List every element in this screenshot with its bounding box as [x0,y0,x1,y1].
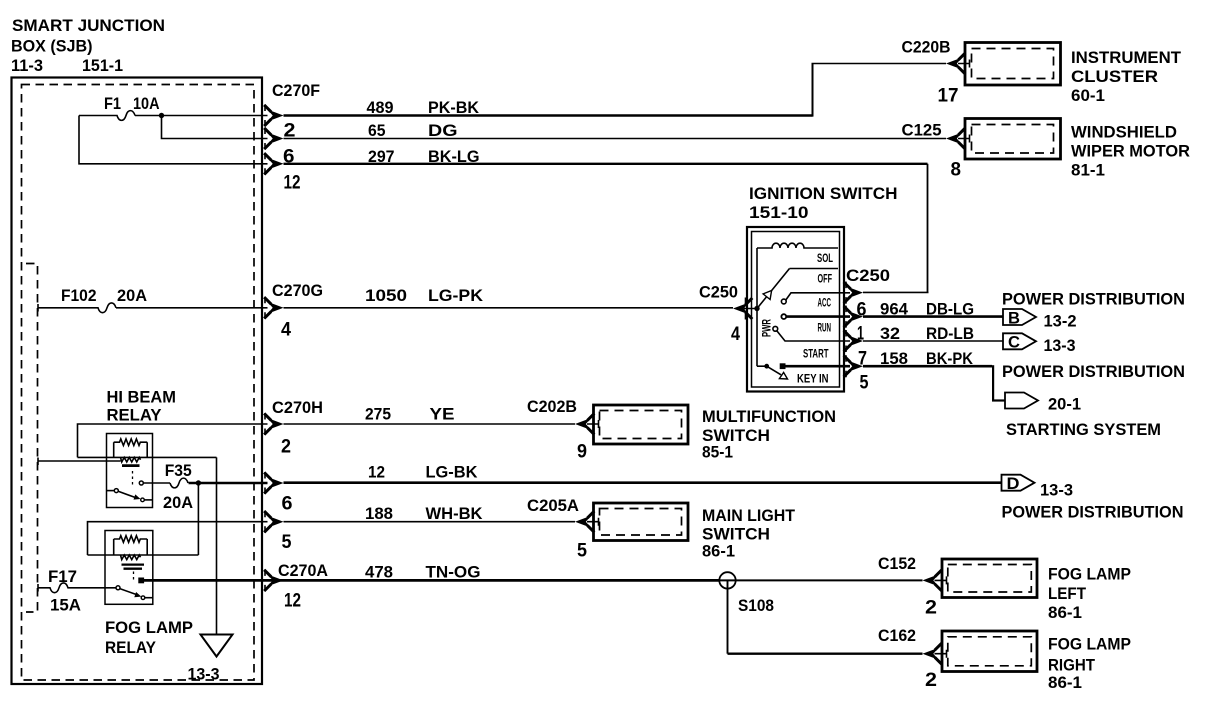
svg-text:RELAY: RELAY [107,406,163,425]
svg-text:C220B: C220B [902,38,951,57]
svg-text:S108: S108 [738,596,774,615]
svg-text:LEFT: LEFT [1048,584,1087,603]
fog relay coil rail [88,554,199,556]
SJB dashed boundary [22,85,255,681]
fog lamp left connector box [942,559,1037,598]
terminal C power distribution 13-3 [1003,333,1076,356]
svg-text:2: 2 [925,670,937,691]
svg-text:5: 5 [282,532,292,553]
svg-text:WH-BK: WH-BK [426,504,484,523]
svg-text:13-3: 13-3 [1040,481,1073,500]
wire F35 junction to pin 6 [189,482,268,484]
svg-text:MAIN LIGHT: MAIN LIGHT [702,506,796,525]
svg-text:FOG LAMP: FOG LAMP [105,618,193,637]
wire 188 WH-BK [284,504,576,523]
svg-text:32: 32 [880,324,900,343]
splice S108 [719,572,774,654]
svg-text:20A: 20A [117,286,147,305]
svg-text:HI BEAM: HI BEAM [107,388,177,407]
svg-text:1: 1 [857,324,864,345]
svg-text:C250: C250 [699,283,738,302]
svg-text:86-1: 86-1 [1048,603,1082,622]
svg-text:RD-LB: RD-LB [926,324,974,343]
svg-text:297: 297 [368,147,395,166]
terminal starting system 20-1 [1005,393,1081,414]
connector C270H [264,398,323,458]
wire 32 RD-LB [857,324,1003,345]
ignition switch rotor [754,248,789,366]
svg-text:11-3: 11-3 [11,56,43,75]
svg-text:81-1: 81-1 [1071,161,1105,180]
svg-text:BOX (SJB): BOX (SJB) [11,37,93,56]
connector pin 5 C270 [264,511,292,553]
wire bus to hi beam coil second winding [38,458,121,466]
wire F102 to C270G [116,307,268,309]
svg-text:10A: 10A [133,94,160,113]
svg-text:SMART JUNCTION: SMART JUNCTION [12,16,165,35]
svg-text:F35: F35 [165,461,192,480]
wire C270H to hi beam coil [78,424,268,457]
svg-text:B: B [1008,309,1020,328]
wire 275 YE [284,405,576,425]
wire 12 LG-BK [284,463,1002,483]
svg-text:INSTRUMENT: INSTRUMENT [1071,48,1182,67]
connector C125 [902,121,970,181]
multifunction switch label [702,407,836,462]
svg-text:964: 964 [880,300,909,319]
svg-text:BK-PK: BK-PK [926,349,974,368]
svg-text:188: 188 [365,504,393,523]
connector C250 right side [844,266,890,394]
ACC contact [781,293,850,310]
connector C152 [878,554,947,619]
svg-text:C270G: C270G [272,281,323,300]
wire F35 junction to fog relay coil [197,483,199,555]
svg-text:20A: 20A [163,493,193,512]
svg-text:WIPER MOTOR: WIPER MOTOR [1071,142,1190,161]
junction F35 output [196,480,201,485]
svg-text:275: 275 [365,405,391,424]
svg-text:15A: 15A [50,596,81,615]
svg-text:C152: C152 [878,554,916,573]
wire 297 BK-LG [284,147,929,292]
smart junction box outline [12,78,263,685]
svg-text:C250: C250 [846,266,890,285]
svg-text:478: 478 [365,563,393,582]
fog lamp right connector box [942,631,1037,672]
svg-text:12: 12 [284,173,301,194]
svg-text:7: 7 [858,349,867,370]
svg-text:WINDSHIELD: WINDSHIELD [1071,123,1177,142]
svg-text:LG-PK: LG-PK [428,286,484,305]
connector C270G [264,281,323,341]
svg-text:TN-OG: TN-OG [426,563,481,582]
wire 65 DG [284,121,947,140]
ignition switch solenoid coil SOL [757,243,838,265]
svg-text:85-1: 85-1 [702,443,733,462]
svg-text:C270A: C270A [278,561,328,580]
svg-text:C162: C162 [878,626,916,645]
connector C162 [878,626,947,691]
ground drop wire [216,457,218,634]
windshield wiper motor label [1071,123,1190,180]
hi beam relay box [107,434,153,508]
fuse F35 [163,461,193,512]
svg-text:RELAY: RELAY [105,638,157,657]
fog lamp left label [1048,565,1131,623]
fog lamp relay contact [116,572,153,600]
svg-text:86-1: 86-1 [702,542,735,561]
svg-text:13-3: 13-3 [188,665,220,684]
connector C205A [527,496,599,562]
svg-text:9: 9 [577,442,587,463]
svg-text:13-3: 13-3 [1044,336,1076,355]
fog lamp right label [1048,635,1131,693]
svg-text:RUN: RUN [818,321,832,335]
wire junction down to 65 DG row [162,116,268,139]
svg-text:C: C [1008,333,1020,352]
svg-text:151-10: 151-10 [749,203,809,222]
connector C270A [264,561,328,612]
svg-text:D: D [1007,474,1020,493]
svg-text:YE: YE [430,405,455,424]
wire F1 to C270F pin (489 branch) [135,115,268,117]
svg-text:86-1: 86-1 [1048,673,1082,692]
hi beam relay label [107,388,177,425]
KEY IN switch [757,363,850,385]
junction node F1 output [159,113,164,118]
svg-text:STARTING SYSTEM: STARTING SYSTEM [1006,420,1161,439]
svg-text:DG: DG [428,121,458,140]
wire S108 to C162 [728,653,923,655]
ignition switch case [747,227,844,392]
svg-text:C125: C125 [902,121,942,140]
terminal B power distribution 13-2 [1003,309,1077,331]
svg-text:489: 489 [367,98,394,117]
svg-text:60-1: 60-1 [1071,86,1105,105]
svg-text:CLUSTER: CLUSTER [1071,67,1158,86]
svg-text:5: 5 [577,541,587,562]
windshield wiper motor connector box [965,119,1061,160]
svg-text:POWER DISTRIBUTION: POWER DISTRIBUTION [1002,503,1184,522]
svg-text:PWR: PWR [760,319,774,337]
connector C250 left pin 4 [699,283,757,346]
svg-text:65: 65 [368,121,386,140]
svg-text:6: 6 [282,494,293,515]
svg-text:17: 17 [938,86,959,107]
svg-text:F102: F102 [61,286,97,305]
svg-text:2: 2 [281,437,291,458]
connector C220B [902,38,970,107]
terminal D power distribution 13-3 [1002,474,1074,499]
svg-text:MULTIFUNCTION: MULTIFUNCTION [702,407,836,426]
svg-text:POWER DISTRIBUTION: POWER DISTRIBUTION [1002,362,1185,381]
wire 1050 LG-PK [284,286,734,308]
svg-text:START: START [803,347,829,361]
hi beam coil rail [78,456,217,458]
svg-text:8: 8 [951,160,962,181]
svg-text:13-2: 13-2 [1044,312,1077,331]
hi beam relay contact [107,471,153,502]
connector C202B [527,397,599,463]
main light switch label [702,506,796,561]
svg-text:4: 4 [731,324,740,345]
instrument cluster connector box [965,43,1061,86]
svg-text:5: 5 [860,373,869,394]
svg-text:ACC: ACC [818,296,832,310]
svg-text:C205A: C205A [527,496,579,515]
svg-text:FOG LAMP: FOG LAMP [1048,635,1131,654]
svg-text:F1: F1 [104,94,121,113]
ignition switch label [749,184,898,222]
svg-text:C202B: C202B [527,397,577,416]
svg-text:158: 158 [880,349,908,368]
RUN contact [781,314,850,334]
svg-text:C270H: C270H [272,398,323,417]
fog lamp relay coil [114,536,148,569]
svg-text:DB-LG: DB-LG [926,300,974,319]
wire 964 DB-LG [857,300,1004,321]
fuse F102 [38,286,147,313]
START contact [773,326,850,360]
svg-text:PK-BK: PK-BK [428,98,480,117]
svg-text:FOG LAMP: FOG LAMP [1048,565,1131,584]
svg-text:LG-BK: LG-BK [426,463,479,482]
svg-text:12: 12 [368,463,385,482]
wire 158 BK-PK [858,349,1005,401]
svg-text:4: 4 [281,320,291,341]
fog lamp relay box [105,531,153,605]
hi beam relay coil [114,439,148,466]
svg-text:RIGHT: RIGHT [1048,656,1096,675]
svg-text:2: 2 [925,598,937,619]
fuse F1 [79,94,160,120]
svg-text:SOL: SOL [817,251,833,265]
wire 489 PK-BK [284,64,947,118]
svg-text:C270F: C270F [272,81,320,100]
fog lamp relay label [105,618,193,657]
OFF contact [790,269,839,286]
main light switch connector box [594,503,689,541]
ground 13-3 [188,635,233,684]
svg-text:OFF: OFF [818,272,833,286]
svg-text:1050: 1050 [365,286,407,305]
svg-text:20-1: 20-1 [1048,395,1081,414]
svg-text:6: 6 [857,300,867,321]
wire contact to fuse F35 [143,482,170,484]
svg-text:IGNITION SWITCH: IGNITION SWITCH [749,184,898,203]
svg-text:BK-LG: BK-LG [428,147,480,166]
SJB internal bus dashed line [26,264,38,613]
instrument cluster label [1071,48,1182,105]
wire corner down to 297 BK-LG row [79,116,268,164]
svg-text:KEY IN: KEY IN [797,372,829,386]
svg-text:151-1: 151-1 [82,56,123,75]
wire 478 TN-OG [144,563,923,582]
svg-text:POWER DISTRIBUTION: POWER DISTRIBUTION [1002,290,1185,309]
svg-text:12: 12 [284,591,301,612]
fuse F17 [38,567,116,615]
connector C270F [264,81,320,194]
multifunction switch connector box [594,405,689,444]
wire fog coil to pin 5 [88,522,268,555]
connector pin 6 C270 [264,472,292,515]
smart junction box label [11,16,165,75]
